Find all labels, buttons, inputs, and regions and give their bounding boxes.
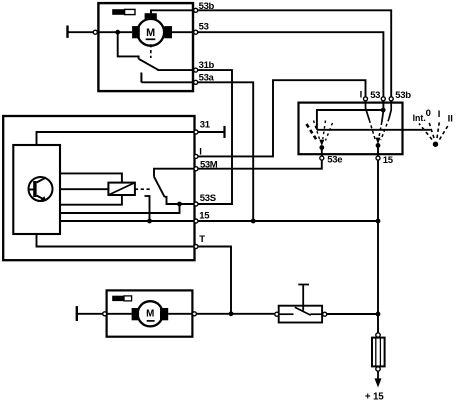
motor M2 (washer pump) [132, 301, 169, 326]
terminal I (switch) [360, 90, 368, 101]
dashed linkage motor to park switch [150, 44, 152, 58]
terminal bar (ground) at 31 [223, 126, 225, 138]
svg-text:53e: 53e [327, 155, 342, 166]
relay electronics inner box [13, 145, 60, 234]
wire electronics to terminal 31 [37, 132, 194, 145]
switch drop from 53b [381, 101, 391, 140]
junction 53S feedback [177, 202, 182, 207]
washer pump box [107, 290, 193, 336]
terminal 53b (switch) [389, 90, 411, 101]
label I (position) [438, 109, 441, 120]
svg-text:53S: 53S [200, 193, 216, 204]
terminal circle right of washer pump [192, 312, 196, 316]
park switch common wire [118, 32, 139, 59]
relay coil K1 [108, 183, 134, 195]
terminal circle right of washer switch [323, 312, 327, 316]
svg-text:+ 15: + 15 [365, 391, 384, 400]
terminal T (relay) [194, 234, 205, 248]
switch drop from 53 junction [378, 111, 383, 140]
washer switch actuator [298, 285, 309, 311]
terminal 53M (relay) [194, 159, 218, 170]
terminal 31 (relay) [194, 119, 211, 134]
relay box [3, 116, 194, 260]
terminal 53a (wiper motor) [194, 73, 215, 85]
label 0 [426, 108, 431, 119]
svg-text:15: 15 [199, 210, 210, 221]
svg-text:53b: 53b [395, 90, 411, 101]
svg-text:II: II [448, 114, 453, 125]
rotary position indicator node [433, 142, 438, 147]
washer switch box [279, 306, 322, 323]
terminal circle left of washer switch [275, 312, 279, 316]
relay fixed contact to 15 [145, 196, 151, 221]
relay contact arm [154, 169, 194, 204]
junction washer line / T [229, 311, 234, 316]
park switch contact 53a [141, 73, 193, 83]
wire 15 line internal [60, 220, 194, 222]
transistor Q1 [29, 177, 53, 201]
svg-text:M: M [146, 27, 155, 39]
terminal 53 (wiper motor) [194, 22, 209, 35]
fuse F1 [372, 333, 385, 371]
left contact dashed rays [307, 121, 333, 142]
junction washer switch / 15 [376, 312, 381, 317]
svg-text:T: T [199, 234, 205, 245]
svg-text:53: 53 [370, 90, 380, 101]
wire 15 vertical main [377, 160, 379, 333]
terminal 53S (relay) [194, 193, 216, 206]
wire relay 53M to switch 53e [198, 160, 322, 169]
column switch box [299, 103, 403, 155]
switch internal 53 bus [317, 101, 384, 130]
svg-text:I: I [438, 109, 441, 120]
wire 31 to ground bar [198, 131, 224, 133]
motor M1 (wiper motor) [132, 13, 172, 45]
terminal 53 (switch) [370, 90, 385, 101]
terminal 15 (switch) [376, 155, 394, 166]
svg-text:Int.: Int. [413, 113, 426, 123]
wire washer switch to 15 [327, 313, 378, 315]
wire ground-lead to washer pump [77, 313, 132, 315]
terminal 53e (switch) [320, 155, 342, 166]
wire 53b motor to switch [198, 10, 392, 97]
junction fixed contact / 15 line [147, 219, 152, 224]
svg-text:0: 0 [426, 108, 431, 119]
thermal breaker in washer pump [112, 296, 131, 301]
terminal bar (ground) left of washer pump [76, 306, 78, 321]
terminal bar (ground) left of wiper motor [66, 26, 68, 38]
switch drop from I [366, 101, 376, 140]
label +15 [365, 391, 384, 402]
wire 53 motor to switch [198, 32, 384, 97]
wire to rotary position indicator [317, 129, 431, 131]
svg-text:31: 31 [200, 119, 211, 130]
junction 15 line [376, 219, 381, 224]
park switch arm [139, 59, 159, 70]
right contact arrow and node [376, 138, 381, 157]
svg-text:I: I [360, 90, 363, 101]
rotary indicator dashed rays [419, 121, 449, 140]
svg-text:53: 53 [199, 22, 209, 33]
terminal circle left of wiper motor [93, 30, 97, 34]
terminal circle left of washer pump [103, 312, 107, 316]
wire park switch to 31b [158, 69, 194, 71]
left contact arrow and node [319, 140, 324, 157]
junction 53 bus [381, 108, 386, 113]
wire ground-lead to wiper motor [68, 31, 132, 33]
wiper motor unit box [98, 3, 193, 91]
dashed linkage coil to relay contact [135, 188, 152, 190]
node junction in wiper motor [115, 30, 120, 35]
wire electronics to coil [60, 188, 108, 190]
wire motor to terminal 53 [164, 31, 193, 33]
label II [448, 114, 453, 125]
thermal breaker in wiper motor [112, 9, 135, 15]
wire 53b stub from motor top brush [151, 10, 194, 13]
terminal 31b (wiper motor) [194, 60, 215, 72]
wire 53a motor to 15 line [198, 82, 254, 221]
supply arrow to +15 [375, 371, 382, 387]
wire 53S feedback to electronics [60, 204, 180, 213]
terminal 53b (wiper motor) [194, 1, 215, 12]
junction 53a/15 [251, 219, 256, 224]
svg-text:15: 15 [383, 155, 394, 166]
label Int. [413, 113, 426, 123]
wire washer pump to switch [168, 313, 274, 315]
terminal 15 (relay) [194, 210, 210, 223]
wire 31b motor to relay 53S [198, 70, 232, 204]
wire electronics to terminal T [37, 234, 194, 247]
terminal I (relay) [194, 147, 202, 159]
wire coil bracket [60, 173, 122, 204]
washer switch internals [279, 307, 322, 315]
wire relay T to washer line [198, 247, 231, 314]
wire 15 line external [198, 220, 378, 222]
svg-text:M: M [146, 309, 154, 320]
wire relay I to switch I [198, 80, 366, 156]
